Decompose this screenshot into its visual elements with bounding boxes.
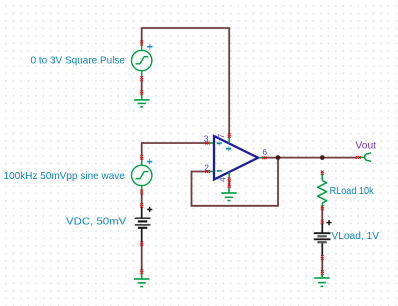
plus polarity mark of VG1 <box>147 44 152 50</box>
svg-text:3: 3 <box>204 134 209 144</box>
svg-text:0 to 3V Square Pulse: 0 to 3V Square Pulse <box>31 55 126 67</box>
wire op-amp output to Vout terminal <box>266 157 356 159</box>
pin marks of VDC <box>141 203 143 245</box>
plus polarity mark of VLoad <box>326 220 331 225</box>
pin marks of ground under VG1 <box>141 90 143 94</box>
node junction dot at RLoad tap <box>320 155 325 160</box>
battery VDC 50mV <box>135 207 151 243</box>
wire from sine source top to op-amp pin 3 <box>142 143 206 156</box>
svg-text:2: 2 <box>204 163 209 173</box>
ground under VG1 <box>134 94 150 107</box>
svg-text:VDC, 50mV: VDC, 50mV <box>66 216 126 228</box>
pin marks of ground under op-amp <box>228 184 230 188</box>
plus polarity mark of VG2 <box>147 159 152 165</box>
plus polarity mark of VDC <box>147 207 152 212</box>
svg-text:100kHz 50mVpp sine wave: 100kHz 50mVpp sine wave <box>4 170 126 182</box>
node junction dot at feedback tap <box>276 155 281 160</box>
wire op-amp pin 4 to ground <box>228 180 230 186</box>
op-amp pin marks <box>205 134 266 182</box>
wire from pulse source top to op-amp pin 7 <box>142 28 230 134</box>
op-amp U1 triangle <box>214 136 258 180</box>
svg-text:VLoad, 1V: VLoad, 1V <box>331 230 379 242</box>
Vout output terminal <box>360 152 371 161</box>
pin marks of VLoad <box>321 220 323 260</box>
voltage generator VG1 square pulse source <box>132 44 152 79</box>
svg-text:4: 4 <box>218 177 228 182</box>
pin marks of Vout terminal <box>356 156 360 158</box>
op-amp plus input mark <box>217 140 222 146</box>
battery VLoad 1V <box>314 224 331 257</box>
wire sine source bottom to VDC battery <box>141 193 143 205</box>
svg-text:RLoad 10k: RLoad 10k <box>330 185 375 197</box>
svg-text:Vout: Vout <box>356 140 377 152</box>
svg-text:6: 6 <box>262 147 267 157</box>
wire RLoad bottom to VLoad battery top <box>321 208 323 222</box>
voltage generator VG2 sine source <box>132 158 152 192</box>
op-amp minus input mark <box>217 170 222 172</box>
pin marks of ground under VDC <box>141 270 143 274</box>
pin marks of VG2 <box>141 155 143 194</box>
svg-text:7: 7 <box>216 134 226 139</box>
op-amp supply lead pin 7 <box>228 137 230 144</box>
op-amp plus supply mark <box>226 146 231 152</box>
ground under VLoad <box>314 275 330 287</box>
pin marks of ground under VLoad <box>321 271 323 275</box>
op-amp input lead pin 2 <box>206 171 213 173</box>
ground under VDC <box>134 274 150 287</box>
wire feedback from output node to op-amp pin 2 <box>192 158 279 206</box>
op-amp input lead pin 3 <box>206 142 213 144</box>
pin marks of RLoad <box>321 171 323 210</box>
resistor RLoad 10k <box>318 174 327 206</box>
wire pulse source bottom to ground <box>141 80 143 92</box>
op-amp supply lead pin 4 <box>228 172 230 179</box>
pin marks of VG1 <box>141 41 143 81</box>
op-amp output lead pin 6 <box>259 157 266 159</box>
wire VDC battery bottom to ground <box>141 244 143 272</box>
wire VLoad battery bottom to ground <box>321 257 323 273</box>
ground under op-amp pin 4 <box>221 187 237 201</box>
